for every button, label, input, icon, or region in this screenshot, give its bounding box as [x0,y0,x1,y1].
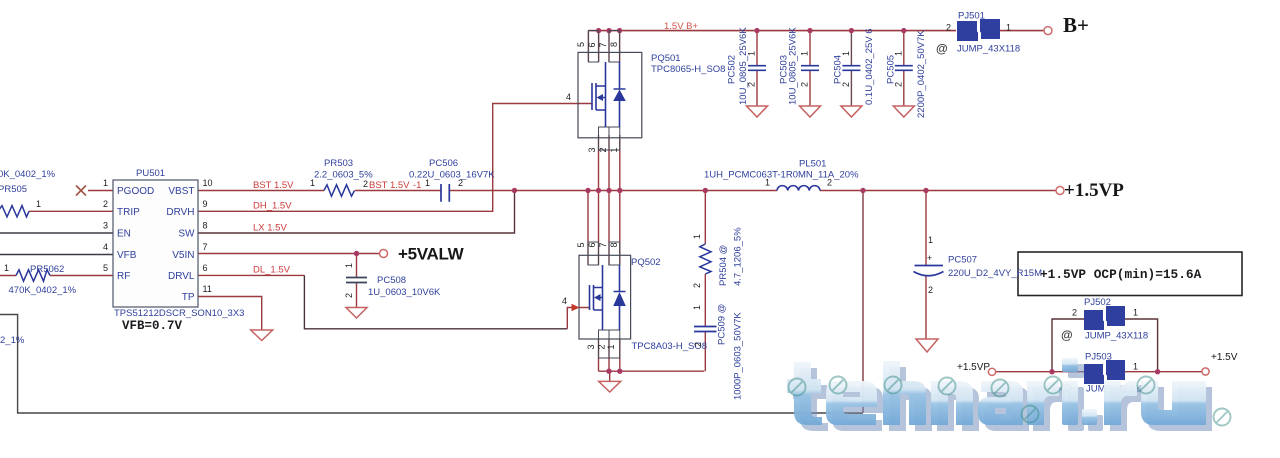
svg-text:4: 4 [562,296,567,306]
svg-text:10: 10 [203,178,213,188]
svg-text:DL_1.5V: DL_1.5V [253,265,291,276]
svg-text:3: 3 [586,344,596,349]
svg-text:2200P_0402_50V7K: 2200P_0402_50V7K [916,30,927,118]
svg-text:4: 4 [103,242,108,252]
svg-text:2: 2 [692,283,702,288]
svg-text:1UH_PCMC063T-1R0MN_11A_20%: 1UH_PCMC063T-1R0MN_11A_20% [704,170,859,181]
svg-text:-1: -1 [413,180,421,191]
svg-text:7: 7 [598,42,608,47]
svg-text:2: 2 [597,344,607,349]
svg-text:TP: TP [182,292,195,303]
svg-text:4: 4 [566,92,571,102]
svg-text:1: 1 [765,178,770,188]
svg-text:PC509 @: PC509 @ [717,304,728,345]
svg-text:1: 1 [344,263,354,268]
svg-text:+1.5V: +1.5V [1211,352,1238,363]
svg-text:JUMP_43X118: JUMP_43X118 [957,44,1020,55]
svg-text:VFB: VFB [117,250,137,261]
svg-text:+1.5VP OCP(min)=15.6A: +1.5VP OCP(min)=15.6A [1040,267,1202,282]
svg-text:3: 3 [587,147,597,152]
svg-text:BST 1.5V: BST 1.5V [253,180,294,191]
svg-text:TPS51212DSCR_SON10_3X3: TPS51212DSCR_SON10_3X3 [114,308,244,319]
svg-text:6: 6 [587,42,597,47]
svg-text:7: 7 [598,242,608,247]
svg-text:2: 2 [458,178,463,188]
svg-text:0.1U_0402_25V 6: 0.1U_0402_25V 6 [864,28,875,105]
svg-text:1: 1 [800,51,810,56]
svg-text:2: 2 [598,147,608,152]
svg-text:8: 8 [203,221,208,231]
svg-text:PJ503: PJ503 [1085,352,1112,363]
svg-text:DRVL: DRVL [168,271,195,282]
svg-text:PQ502: PQ502 [631,257,661,268]
svg-text:1: 1 [1133,308,1138,318]
svg-text:+: + [927,253,932,263]
svg-text:TRIP: TRIP [117,207,140,218]
svg-text:BST 1.5V: BST 1.5V [369,180,410,191]
svg-text:2: 2 [841,82,851,87]
svg-text:PGOOD: PGOOD [117,186,154,197]
svg-text:2: 2 [893,82,903,87]
svg-text:2: 2 [344,293,354,298]
svg-text:+1.5VP: +1.5VP [1064,180,1124,201]
svg-text:V5IN: V5IN [172,250,194,261]
svg-text:7: 7 [203,242,208,252]
svg-text:DRVH: DRVH [166,207,194,218]
svg-text:PC506: PC506 [429,158,458,169]
svg-text:PC505: PC505 [886,55,897,84]
svg-text:+1.5VP: +1.5VP [957,362,990,373]
svg-text:1: 1 [1133,362,1138,372]
svg-text:PR5062: PR5062 [30,264,64,275]
svg-text:1.5V B+: 1.5V B+ [664,21,699,32]
svg-text:@: @ [936,42,948,56]
svg-text:1: 1 [747,51,757,56]
svg-text:2: 2 [1072,308,1077,318]
svg-text:8: 8 [609,242,619,247]
svg-text:2: 2 [800,82,810,87]
svg-text:2: 2 [103,199,108,209]
svg-text:1: 1 [103,178,108,188]
svg-text:470K_0402_1%: 470K_0402_1% [9,285,77,296]
svg-text:DH_1.5V: DH_1.5V [253,201,292,212]
svg-text:4.7_1206_5%: 4.7_1206_5% [733,227,744,286]
svg-text:1: 1 [893,51,903,56]
svg-text:1: 1 [36,199,41,209]
svg-text:1U_0603_10V6K: 1U_0603_10V6K [368,287,441,298]
svg-text:PR504 @: PR504 @ [718,245,729,286]
svg-text:2_1%: 2_1% [0,335,25,346]
svg-text:0K_0402_1%: 0K_0402_1% [0,169,56,180]
svg-text:1: 1 [841,51,851,56]
svg-text:PJ502: PJ502 [1084,297,1111,308]
svg-text:PC507: PC507 [948,255,977,266]
svg-text:220U_D2_4VY_R15M: 220U_D2_4VY_R15M [948,268,1042,279]
svg-text:1: 1 [692,234,702,239]
svg-text:1: 1 [692,305,702,310]
svg-text:1: 1 [4,263,9,273]
svg-text:RF: RF [117,271,130,282]
svg-text:PR503: PR503 [324,158,353,169]
svg-text:VFB=0.7V: VFB=0.7V [122,319,183,333]
svg-text:PC502: PC502 [727,55,738,84]
svg-text:VBST: VBST [168,186,194,197]
svg-text:9: 9 [203,199,208,209]
svg-text:PJ501: PJ501 [958,11,985,22]
svg-text:10U_0805_25V6K: 10U_0805_25V6K [788,27,799,105]
svg-text:11: 11 [203,284,212,294]
svg-text:2: 2 [946,23,951,33]
svg-text:5: 5 [103,263,108,273]
svg-text:@: @ [1061,328,1073,342]
svg-text:1: 1 [606,344,616,349]
svg-text:PR505: PR505 [0,184,27,195]
svg-text:PC508: PC508 [377,275,406,286]
svg-text:EN: EN [117,229,131,240]
svg-text:0.22U_0603_16V7K: 0.22U_0603_16V7K [409,170,495,181]
svg-text:6: 6 [587,242,597,247]
svg-text:TPC8065-H_SO8: TPC8065-H_SO8 [651,64,725,75]
svg-text:PC504: PC504 [833,55,844,84]
svg-text:SW: SW [178,229,195,240]
svg-text:5: 5 [576,242,586,247]
svg-text:PU501: PU501 [136,168,165,179]
svg-text:5: 5 [576,42,586,47]
svg-text:1: 1 [1006,23,1011,33]
svg-text:3: 3 [103,221,108,231]
svg-text:2: 2 [747,82,757,87]
svg-text:2: 2 [928,285,933,295]
svg-text:2: 2 [693,342,703,347]
svg-text:+5VALW: +5VALW [398,245,465,264]
svg-text:PL501: PL501 [799,159,826,170]
svg-text:1: 1 [928,235,933,245]
svg-text:LX 1.5V: LX 1.5V [253,223,287,234]
svg-text:1: 1 [609,147,619,152]
svg-text:JUMP_43X118: JUMP_43X118 [1085,331,1148,342]
svg-text:1: 1 [310,178,315,188]
svg-text:6: 6 [203,263,208,273]
svg-text:2: 2 [827,178,832,188]
svg-text:10U_0805_25V6K: 10U_0805_25V6K [738,27,749,105]
svg-text:1000P_0603_50V7K: 1000P_0603_50V7K [733,312,744,400]
svg-text:B+: B+ [1063,13,1089,37]
svg-text:2: 2 [363,179,368,189]
svg-text:8: 8 [609,42,619,47]
svg-text:PQ501: PQ501 [651,53,681,64]
